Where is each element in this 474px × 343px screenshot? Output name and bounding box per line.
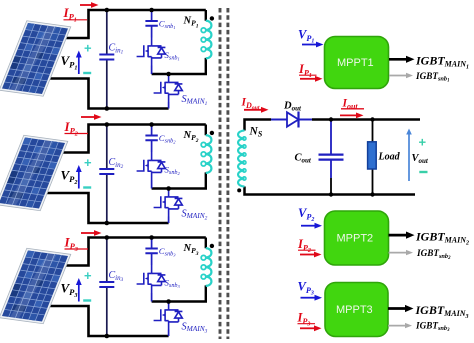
svg-text:+: +: [84, 268, 92, 283]
svg-text:MPPT1: MPPT1: [337, 57, 374, 69]
svg-text:MPPT2: MPPT2: [337, 233, 374, 245]
svg-text:+: +: [84, 41, 92, 56]
svg-text:Load: Load: [378, 152, 401, 163]
svg-text:+: +: [419, 135, 427, 150]
svg-text:MPPT3: MPPT3: [336, 304, 373, 316]
svg-text:+: +: [84, 155, 92, 170]
